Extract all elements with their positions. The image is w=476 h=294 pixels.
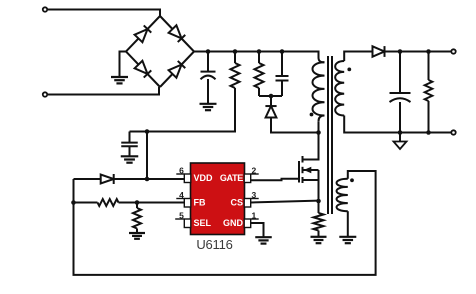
svg-text:4: 4 — [179, 190, 184, 200]
svg-text:6: 6 — [179, 165, 184, 175]
svg-text:GND: GND — [223, 218, 244, 228]
svg-text:CS: CS — [230, 198, 243, 208]
svg-text:FB: FB — [194, 198, 206, 208]
svg-text:GATE: GATE — [220, 173, 243, 183]
svg-text:5: 5 — [179, 210, 184, 220]
svg-text:2: 2 — [252, 165, 257, 175]
svg-text:VDD: VDD — [194, 173, 214, 183]
svg-text:3: 3 — [252, 190, 257, 200]
svg-text:1: 1 — [252, 210, 257, 220]
svg-text:SEL: SEL — [194, 218, 212, 228]
svg-text:U6116: U6116 — [196, 237, 232, 252]
